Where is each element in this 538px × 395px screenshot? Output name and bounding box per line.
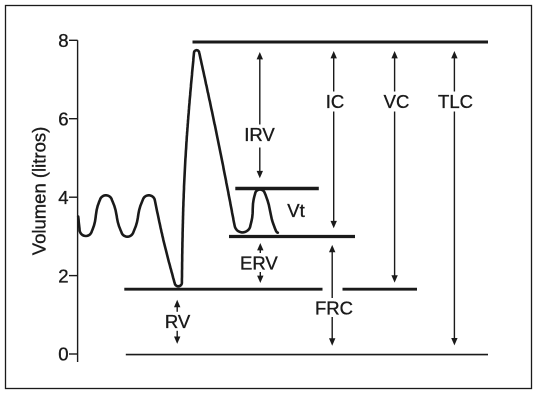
svg-text:RV: RV — [165, 311, 191, 332]
VC arrow — [391, 51, 397, 283]
svg-text:VC: VC — [384, 91, 410, 112]
tick 8 — [69, 39, 78, 41]
label VC — [382, 91, 411, 112]
label RV — [164, 311, 191, 332]
end-expiratory level line at 3 litros — [229, 235, 355, 238]
tick 2 — [69, 275, 78, 277]
svg-text:6: 6 — [58, 108, 68, 129]
ERV arrow — [257, 243, 263, 283]
label IC — [322, 91, 348, 112]
svg-text:8: 8 — [58, 30, 68, 51]
svg-text:0: 0 — [58, 344, 68, 365]
tick 0 — [69, 353, 78, 355]
svg-text:IRV: IRV — [244, 124, 275, 145]
svg-text:4: 4 — [58, 187, 68, 208]
TLC level line at 8 litros — [193, 41, 489, 44]
RV arrow — [174, 300, 180, 344]
svg-text:ERV: ERV — [240, 252, 278, 273]
TLC arrow — [451, 51, 457, 345]
RV level line right segment — [343, 288, 418, 291]
svg-text:2: 2 — [58, 265, 68, 286]
label TLC — [436, 91, 475, 112]
label IRV — [242, 124, 277, 148]
IC arrow — [331, 51, 337, 228]
svg-text:Vt: Vt — [287, 200, 304, 221]
zero baseline — [126, 354, 488, 356]
tick 6 — [69, 118, 78, 120]
RV level line left segment — [124, 288, 322, 291]
svg-text:FRC: FRC — [315, 297, 353, 318]
y-axis line — [77, 40, 79, 362]
IRV arrow — [257, 52, 263, 178]
svg-text:Volumen (litros): Volumen (litros) — [29, 127, 50, 256]
label FRC — [313, 297, 355, 318]
label ERV — [239, 252, 279, 273]
spirogram curve — [78, 50, 278, 286]
svg-text:IC: IC — [326, 91, 345, 112]
FRC arrow — [329, 245, 335, 346]
Vt top level line — [235, 187, 318, 191]
tick 4 — [69, 196, 78, 198]
svg-text:TLC: TLC — [438, 91, 473, 112]
